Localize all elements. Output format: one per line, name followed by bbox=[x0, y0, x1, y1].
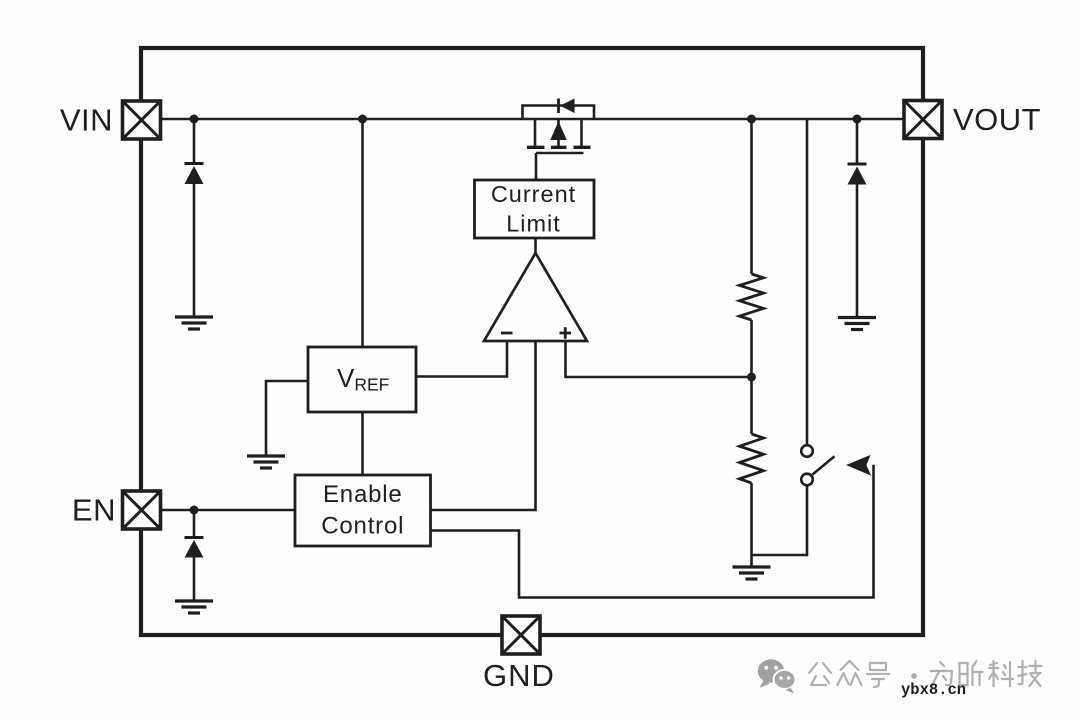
wire: R2 bottom down to ground bbox=[750, 483, 753, 566]
wechat icon small bubble bbox=[774, 670, 796, 694]
diode D1 bbox=[185, 164, 204, 185]
current limit block U2 bbox=[475, 180, 595, 238]
svg-text:ybx8.cn: ybx8.cn bbox=[901, 681, 966, 699]
watermark glyph zhong bbox=[838, 661, 862, 685]
resistor R1 bbox=[740, 274, 764, 320]
body diode of M1 bbox=[559, 99, 575, 114]
pass transistor M1 body-diode rail bbox=[523, 106, 595, 120]
wire: VREF to local ground bbox=[266, 381, 308, 455]
wire: R1 bottom to feedback node and R2 bbox=[750, 320, 753, 434]
op-amp minus sign bbox=[501, 332, 513, 335]
enable control block U3 bbox=[295, 475, 431, 546]
wire: main rail VIN to VOUT bbox=[161, 118, 905, 121]
junction node on main rail at D1 bbox=[190, 115, 199, 124]
wire: enable-control to switch actuator bbox=[431, 465, 874, 598]
watermark glyph gong bbox=[809, 663, 831, 685]
wire: op-amp output to current limit bbox=[534, 238, 537, 254]
op-amp plus sign bbox=[560, 327, 572, 339]
arrowhead pointing at switch bbox=[848, 456, 871, 475]
ground (below D2) bbox=[838, 318, 876, 330]
svg-text:VOUT: VOUT bbox=[953, 102, 1041, 137]
diode D1 (VIN ESD) wire bbox=[193, 119, 196, 316]
svg-text:EN: EN bbox=[72, 493, 116, 528]
svg-text:Limit: Limit bbox=[506, 211, 561, 237]
svg-text:Current: Current bbox=[491, 181, 576, 207]
IC boundary box bbox=[141, 48, 923, 635]
junction node on main rail at VREF feed bbox=[358, 115, 367, 124]
resistor R2 bbox=[740, 434, 764, 483]
diode D3 bbox=[185, 538, 204, 558]
transistor M1 (PMOS pass FET) bbox=[527, 119, 591, 180]
wire: inverting input from VREF bbox=[416, 341, 507, 377]
diode D2 (VOUT ESD) wire bbox=[856, 119, 859, 317]
wire: feedback divider top (main rail to R1) bbox=[750, 119, 753, 274]
pin VIN bbox=[123, 101, 161, 139]
watermark glyph wei bbox=[931, 662, 952, 686]
watermark glyph ji bbox=[1019, 661, 1042, 686]
wire: VREF to Enable Control bbox=[361, 412, 364, 475]
ground (VREF) bbox=[247, 456, 285, 468]
svg-text:Enable: Enable bbox=[323, 481, 403, 508]
wire: switch bottom to R2 foot bbox=[752, 485, 808, 555]
junction node on main rail at D2 bbox=[853, 115, 862, 124]
wire: non-inverting input from feedback node bbox=[566, 341, 752, 377]
VREF block bbox=[308, 347, 416, 412]
wire: EN pin to Enable Control bbox=[161, 509, 296, 512]
wechat icon big bubble bbox=[758, 659, 784, 688]
svg-text:Control: Control bbox=[321, 513, 404, 540]
junction node feedback divider bbox=[747, 373, 756, 382]
watermark glyph hao bbox=[867, 663, 889, 687]
wire: VREF top feed from main rail bbox=[361, 119, 364, 347]
junction node on main rail at divider bbox=[747, 115, 756, 124]
op-amp U1 bbox=[484, 253, 587, 341]
wire: op-amp center to enable control bbox=[431, 341, 536, 510]
pin GND bbox=[502, 616, 540, 654]
junction node on EN wire at D3 bbox=[190, 506, 199, 515]
ground (below D3) bbox=[175, 601, 213, 613]
diode D3 (EN ESD) wire bbox=[193, 510, 196, 600]
watermark glyph ke bbox=[989, 661, 1013, 686]
ground (below R2) bbox=[733, 567, 771, 579]
ground (below D1) bbox=[175, 317, 213, 329]
diode D2 bbox=[848, 164, 867, 185]
svg-text:GND: GND bbox=[483, 658, 555, 693]
watermark glyph xin bbox=[960, 661, 983, 685]
watermark middle dot bbox=[911, 673, 917, 679]
wire: switch branch from main rail bbox=[806, 119, 809, 445]
svg-text:VIN: VIN bbox=[60, 103, 113, 138]
pin VOUT bbox=[904, 101, 942, 139]
pin EN bbox=[123, 491, 161, 529]
switch S1 contacts bbox=[801, 445, 834, 485]
